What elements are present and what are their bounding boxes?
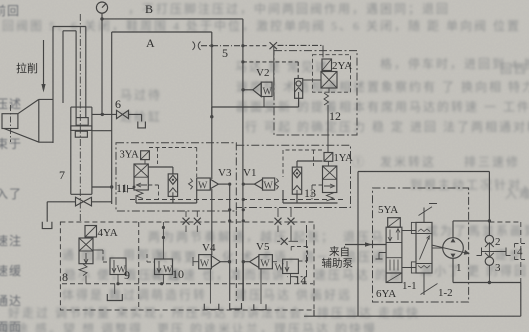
pilot line with crossing symbol (193, 42, 324, 50)
svg-text:V1: V1 (243, 167, 256, 179)
svg-text:4YA: 4YA (98, 227, 118, 239)
svg-text:1: 1 (456, 262, 462, 274)
check insert right (283, 161, 338, 203)
svg-text:12: 12 (329, 109, 341, 123)
solenoid valve 12 (2YA) (303, 45, 353, 152)
svg-text:11: 11 (116, 181, 128, 195)
tank symbol (42, 222, 52, 229)
junction dots center column (228, 198, 245, 223)
throttle X single (277, 238, 298, 245)
svg-text:W: W (200, 259, 210, 270)
supply wire from manifold (345, 244, 386, 246)
drain plug symbol right with element 4 (489, 244, 526, 260)
pilot line to orifice insert (241, 60, 298, 78)
check valve 2 (485, 235, 501, 256)
manifold block box right (dash-dot) (236, 145, 350, 207)
pressure gauge (96, 2, 107, 19)
svg-text:拉削: 拉削 (16, 61, 38, 75)
label 来自辅助泵 (322, 245, 354, 270)
arrowhead aux supply (365, 242, 372, 247)
cartridge valve V3 (189, 167, 232, 192)
svg-text:6YA: 6YA (376, 288, 396, 300)
svg-text:V2: V2 (256, 67, 269, 79)
cartridge valve V4 (193, 242, 231, 304)
cylinder bottom port wire (92, 186, 112, 188)
svg-text:2YA: 2YA (332, 60, 352, 72)
svg-text:14: 14 (295, 273, 307, 287)
svg-text:V4: V4 (202, 242, 216, 254)
svg-text:8: 8 (62, 270, 68, 284)
svg-text:来自: 来自 (329, 245, 350, 258)
lower control box (dashed) (60, 222, 314, 310)
svg-text:B: B (145, 2, 153, 16)
check insert left (136, 167, 197, 203)
relief valve 14 (275, 247, 308, 288)
drain plug symbol left (477, 248, 490, 256)
broach ram column (53, 27, 86, 144)
centerline (79, 14, 81, 221)
dashed link to element 4 (489, 222, 520, 283)
node B junction (100, 17, 103, 20)
svg-text:W: W (198, 181, 208, 192)
divider dashed (138, 222, 140, 310)
pilot valve 1-1 (5YA/6YA) (376, 204, 417, 300)
workpiece horn fixture (2, 99, 53, 142)
svg-text:1YA: 1YA (334, 153, 354, 164)
scan noise texture (0, 0, 1, 1)
pilot bus dashed upper (130, 199, 345, 201)
pump unit outer box (304, 172, 521, 317)
pump outlet wires (453, 172, 489, 238)
manifold block box left (dash-dot) (116, 143, 236, 211)
tank symbol (138, 122, 146, 128)
svg-text:4: 4 (517, 246, 523, 258)
svg-text:W: W (264, 181, 274, 192)
orifice check insert top (210, 79, 303, 119)
svg-text:9: 9 (124, 268, 130, 282)
bleed-through background text (128, 0, 450, 17)
tank symbol center (230, 303, 242, 309)
pump unit inner box (dash-dot) (373, 188, 469, 302)
tank symbol below valve 9 (107, 294, 122, 301)
svg-text:V5: V5 (256, 241, 270, 253)
cylinder rod-side port wire (92, 113, 117, 115)
throttle X pair left (183, 211, 201, 232)
solenoid valve 8 (4YA) (62, 226, 118, 285)
svg-text:3: 3 (495, 262, 501, 274)
svg-text:7: 7 (59, 168, 65, 182)
svg-text:3YA: 3YA (120, 150, 140, 161)
cylinder mid port wire (92, 130, 112, 132)
variable pump 1 (432, 238, 470, 274)
throttle X pair right (275, 208, 295, 241)
shut-off valve 6 (115, 97, 129, 119)
divider dashed center (235, 211, 237, 301)
cartridge valve V1 (242, 167, 279, 192)
wire line B (102, 19, 243, 301)
throttle X on pilot line (270, 42, 278, 49)
pilot bus dashed (62, 283, 313, 285)
relief valve 10 (147, 222, 184, 285)
cartridge valve V2 (241, 46, 273, 107)
relief valve 9 (110, 258, 130, 294)
wire from valve 6 to drain (129, 114, 142, 121)
svg-text:V3: V3 (218, 167, 232, 179)
svg-text:W: W (260, 259, 270, 270)
svg-text:1-2: 1-2 (438, 287, 453, 299)
cylinder drain shut-off valve (76, 197, 92, 206)
svg-text:13: 13 (304, 186, 316, 200)
wire drain to tank (47, 202, 112, 222)
svg-text:辅助泵: 辅助泵 (322, 257, 354, 270)
svg-text:1-1: 1-1 (402, 280, 417, 292)
label 拉削 with arrow (16, 40, 46, 93)
svg-text:W: W (263, 87, 273, 98)
hydraulic cylinder 7 (71, 107, 92, 194)
svg-text:10: 10 (172, 267, 184, 281)
svg-text:5: 5 (222, 46, 228, 60)
pilot dashes valve 11 to V3 (148, 148, 196, 200)
tank symbol below V5 (254, 304, 266, 309)
tank symbol below V4 (204, 304, 219, 310)
solenoid valve 13 (1YA) (323, 153, 354, 201)
wire line A (112, 32, 212, 255)
svg-text:2: 2 (495, 236, 501, 248)
manifold block box top-right (dash-dot) (274, 51, 357, 135)
solenoid valve 11 (3YA) (116, 150, 149, 199)
svg-text:5YA: 5YA (378, 204, 398, 216)
svg-text:6: 6 (115, 97, 121, 111)
pump control cylinder 1-2 (411, 204, 452, 300)
tank return wires (314, 258, 521, 316)
cartridge valve V5 (242, 241, 277, 304)
sub-box around valve 14 (dash-dot) (287, 225, 307, 277)
center bus wires (230, 184, 244, 301)
svg-text:A: A (146, 36, 155, 50)
check valve 3 (485, 253, 501, 283)
pilot dashes valve 13 to V1 (283, 150, 323, 200)
